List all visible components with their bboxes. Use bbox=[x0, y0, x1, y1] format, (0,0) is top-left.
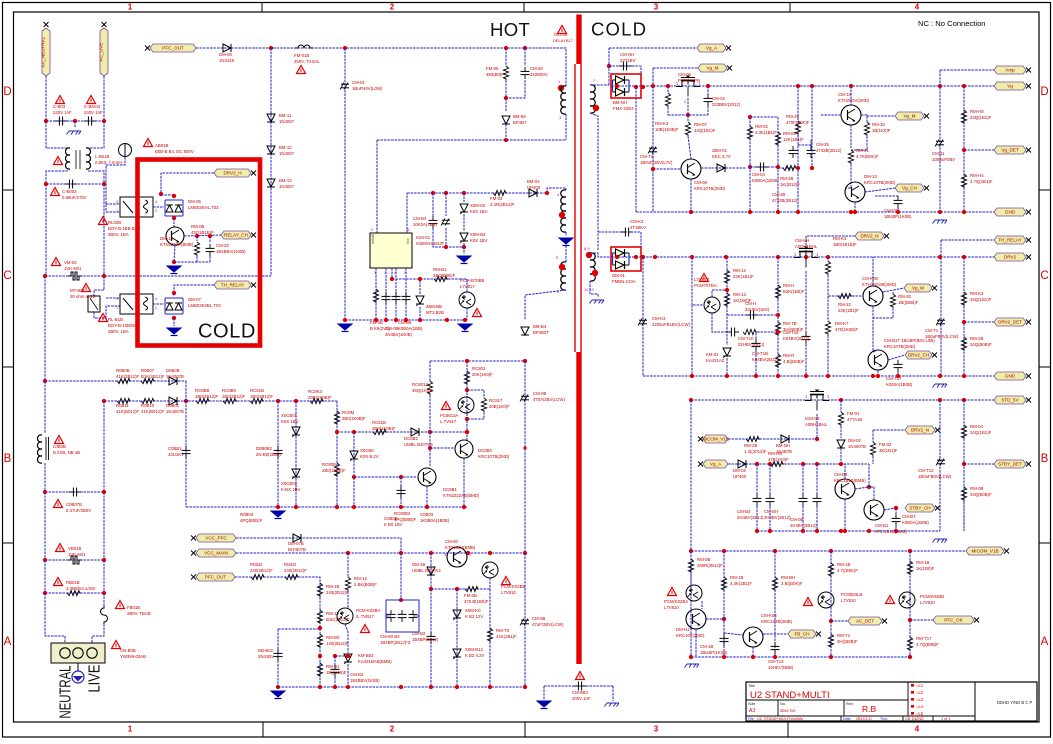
diode DM-02c UP400 bbox=[738, 460, 746, 468]
diode BM-50 BP4B7 bbox=[502, 116, 510, 124]
junction bbox=[896, 210, 900, 214]
svg-text:A0DH1BHL: A0DH1BHL bbox=[795, 244, 818, 249]
svg-text:CM-K3: CM-K3 bbox=[630, 219, 644, 224]
svg-text:RM-1B: RM-1B bbox=[916, 560, 930, 565]
wire bbox=[816, 506, 818, 531]
junction bbox=[634, 255, 638, 259]
wire x=457 zd chain bbox=[456, 589, 458, 687]
junction bbox=[725, 288, 729, 292]
svg-text:KTH2N0V(2MD): KTH2N0V(2MD) bbox=[838, 98, 870, 103]
junction bbox=[431, 191, 435, 195]
capacitor DB02 bbox=[274, 652, 283, 654]
wire bbox=[185, 381, 187, 401]
junction bbox=[43, 558, 47, 562]
junction bbox=[843, 529, 847, 533]
wire y=115 row bbox=[668, 114, 708, 116]
svg-text:L0B0B: L0B0B bbox=[53, 444, 66, 449]
chassis ground C bbox=[933, 384, 948, 388]
junction bbox=[488, 551, 492, 555]
wire x=727 chain bbox=[726, 257, 728, 345]
svg-text:B: B bbox=[1041, 453, 1049, 465]
wire bbox=[45, 593, 65, 643]
svg-text:Rev.: Rev. bbox=[846, 702, 854, 706]
svg-text:0.68uF/275V: 0.68uF/275V bbox=[62, 195, 87, 200]
wire cap CM-07 bbox=[875, 195, 898, 197]
svg-text:K0X 1BV: K0X 1BV bbox=[470, 209, 488, 214]
wire CM-01 branch bbox=[344, 48, 346, 320]
svg-text:RM-BH: RM-BH bbox=[781, 575, 795, 580]
svg-text:12K(1B1)F: 12K(1B1)F bbox=[783, 137, 804, 142]
wire C0B1 branch bbox=[185, 401, 187, 507]
svg-text:CM-11: CM-11 bbox=[932, 151, 945, 156]
capacitor CM-T12 bbox=[937, 459, 945, 461]
net flag RELAY_CH bbox=[221, 231, 251, 239]
resistor R0B0B bbox=[117, 378, 131, 383]
svg-text:X0CB01: X0CB01 bbox=[281, 413, 298, 418]
wire MICOM_V1B right bbox=[910, 550, 966, 552]
warning bbox=[442, 402, 451, 410]
svg-text:B 2XB, NB uB: B 2XB, NB uB bbox=[53, 450, 80, 455]
wire Vg_M flag C bbox=[883, 288, 904, 292]
wire bbox=[632, 66, 641, 74]
svg-text:1B4BBV(1K0B): 1B4BBV(1K0B) bbox=[350, 678, 380, 683]
warning bbox=[56, 96, 65, 104]
svg-text:23Q(1B1)F: 23Q(1B1)F bbox=[970, 115, 992, 120]
junction bbox=[768, 529, 772, 533]
warning bbox=[54, 157, 63, 165]
svg-text:DM-07: DM-07 bbox=[188, 297, 202, 302]
svg-text:RM-22: RM-22 bbox=[838, 302, 852, 307]
svg-text:RL02B: RL02B bbox=[108, 220, 121, 225]
wire x=490 res branch bbox=[489, 589, 491, 687]
junction bbox=[465, 417, 469, 421]
wire Vg_A row B bbox=[728, 463, 869, 465]
svg-text:RC81B: RC81B bbox=[250, 388, 264, 393]
junction bbox=[768, 462, 772, 466]
wire bbox=[692, 257, 704, 305]
wire bbox=[667, 107, 669, 115]
capacitor CM-80a bbox=[387, 613, 396, 615]
capacitor CM-T16 bbox=[802, 335, 811, 337]
wire bus y=531 bbox=[757, 530, 940, 532]
wire MICOM row bbox=[728, 438, 817, 440]
svg-text:43Q1B1B)F: 43Q1B1B)F bbox=[191, 230, 214, 235]
junction bbox=[962, 84, 966, 88]
svg-text:1B4BBV(1K0B): 1B4BBV(1K0B) bbox=[216, 249, 246, 254]
junction bbox=[428, 446, 432, 450]
svg-text:2H4BV(2B1J): 2H4BV(2B1J) bbox=[737, 515, 764, 520]
wire Vg_A top bbox=[609, 47, 697, 49]
IC ICM-01 ICB0NH1B4JF bbox=[370, 233, 412, 268]
svg-text:D: D bbox=[1040, 86, 1048, 98]
net flag PFC_OUT2 bbox=[196, 573, 235, 581]
wire bbox=[489, 578, 491, 589]
svg-text:390(B0)F: 390(B0)F bbox=[486, 72, 504, 77]
wire bbox=[872, 456, 874, 464]
junction bbox=[849, 210, 853, 214]
capacitor CM-11 bbox=[936, 140, 944, 142]
wire bbox=[802, 464, 804, 494]
net flag DRV2 bbox=[994, 253, 1026, 261]
svg-text:1 of 1: 1 of 1 bbox=[941, 717, 951, 721]
diode DM-1B UMBL.B40TK3 bbox=[427, 567, 435, 575]
wire bbox=[590, 84, 609, 86]
svg-text:RC817: RC817 bbox=[489, 398, 503, 403]
wire x=940 B bbox=[939, 400, 941, 531]
svg-text:DDHD Y/ND B C P: DDHD Y/ND B C P bbox=[997, 700, 1032, 705]
svg-text:KTN2222A(BMB): KTN2222A(BMB) bbox=[160, 242, 194, 247]
junction bbox=[615, 84, 619, 88]
wire bbox=[94, 306, 120, 318]
zener diode X0M-K0 K B2 12V bbox=[453, 610, 461, 618]
svg-text:0.47uF/2B0V: 0.47uF/2B0V bbox=[66, 508, 91, 513]
svg-text:Vg: Vg bbox=[1007, 84, 1013, 89]
svg-text:1B0(2B12)F: 1B0(2B12)F bbox=[250, 394, 274, 399]
warning bbox=[99, 314, 108, 322]
wire bbox=[525, 48, 566, 86]
warning bbox=[54, 500, 63, 508]
svg-text:BM-50: BM-50 bbox=[513, 114, 526, 119]
svg-text:L7V817: L7V817 bbox=[460, 284, 475, 289]
junction bbox=[43, 379, 47, 383]
svg-text:2T1BKV: 2T1BKV bbox=[630, 225, 646, 230]
wire bbox=[565, 232, 567, 236]
svg-text:CM-B4: CM-B4 bbox=[413, 216, 427, 221]
svg-text:CM-T13: CM-T13 bbox=[768, 659, 784, 664]
wire x=401 cap bank feed bbox=[400, 553, 402, 600]
svg-text:1N4007B: 1N4007B bbox=[166, 374, 184, 379]
junction bbox=[689, 210, 693, 214]
svg-text:FMX-22B3: FMX-22B3 bbox=[613, 106, 634, 111]
svg-text:34Q(1B1)F: 34Q(1B1)F bbox=[694, 128, 716, 133]
junction bbox=[849, 84, 853, 88]
junction bbox=[418, 277, 422, 281]
svg-text:470F(B0K)F: 470F(B0K)F bbox=[786, 120, 810, 125]
wire FM-01 DM-02 branch bbox=[840, 400, 842, 412]
warning bbox=[99, 217, 108, 225]
resistor RM-B1 bbox=[317, 663, 322, 677]
wire PFC_OUT rail bbox=[196, 47, 566, 49]
ground aux supply bbox=[457, 256, 471, 262]
junction bbox=[523, 446, 526, 449]
connector CN-B0B bbox=[51, 643, 105, 663]
thermistor MT-B01 bbox=[88, 296, 100, 312]
svg-text:DM-02: DM-02 bbox=[733, 468, 747, 473]
wire bbox=[103, 593, 105, 606]
junction bbox=[184, 399, 188, 403]
wire bbox=[463, 243, 465, 254]
svg-text:CM-1B: CM-1B bbox=[700, 644, 714, 649]
resistor RM-1B bbox=[317, 583, 322, 597]
svg-text:4PQ(B0B)F: 4PQ(B0B)F bbox=[394, 517, 417, 522]
svg-text:B2K(1B0)F: B2K(1B0)F bbox=[783, 289, 805, 294]
wire y=361 feed bbox=[430, 360, 525, 362]
svg-text:DB-B02: DB-B02 bbox=[258, 648, 274, 653]
wire bbox=[347, 553, 349, 577]
svg-text:=L4: =L4 bbox=[916, 704, 924, 709]
svg-text:BM-12: BM-12 bbox=[279, 145, 292, 150]
wire bbox=[707, 106, 709, 115]
svg-text:2: 2 bbox=[390, 725, 395, 734]
svg-text:240(2B12)F: 240(2B12)F bbox=[326, 590, 349, 595]
svg-text:2BQ(B0B)F: 2BQ(B0B)F bbox=[433, 273, 456, 278]
rectifier red box D bbox=[611, 74, 641, 98]
junction bbox=[318, 654, 322, 658]
wire x=354 branch bbox=[353, 432, 355, 507]
resistor FM-02 bbox=[870, 442, 875, 456]
junction bbox=[335, 430, 339, 434]
wire bbox=[873, 308, 893, 318]
wire bbox=[840, 426, 842, 438]
svg-text:200R(2B12)F: 200R(2B12)F bbox=[697, 563, 723, 568]
svg-text:C-BNH3: C-BNH3 bbox=[84, 104, 101, 109]
svg-text:PFC_OK: PFC_OK bbox=[944, 618, 963, 623]
wire x=337 chain bbox=[336, 401, 338, 507]
svg-text:10K0A(1BB): 10K0A(1BB) bbox=[413, 222, 437, 227]
title block bbox=[746, 682, 1037, 721]
junction bbox=[801, 462, 805, 466]
warning bbox=[54, 578, 63, 586]
wire bbox=[103, 276, 105, 290]
wire bbox=[184, 235, 221, 236]
svg-text:1N4007: 1N4007 bbox=[279, 151, 295, 156]
resistor RM-30 bbox=[864, 122, 869, 136]
svg-text:39Q(1K0)F: 39Q(1K0)F bbox=[412, 388, 434, 393]
svg-text:RM-K7: RM-K7 bbox=[835, 321, 849, 326]
wire bbox=[88, 121, 104, 148]
svg-text:CM-B4: CM-B4 bbox=[834, 472, 848, 477]
svg-text:RC8K3: RC8K3 bbox=[308, 389, 322, 394]
resistor RC8BB bbox=[196, 398, 210, 403]
capacitor bank CM-80-B2 bbox=[386, 600, 419, 632]
wire bbox=[347, 664, 349, 687]
warning bbox=[82, 284, 91, 292]
svg-text:2N-B0(2B0J): 2N-B0(2B0J) bbox=[256, 452, 281, 457]
diode D0B0B 1N4007 bbox=[169, 377, 177, 385]
svg-text:KTD1624(BMB): KTD1624(BMB) bbox=[445, 545, 476, 550]
wire AC_DET flag bbox=[831, 620, 848, 622]
wire bbox=[173, 318, 175, 326]
svg-text:DM-1B: DM-1B bbox=[412, 562, 426, 567]
wire bbox=[695, 629, 697, 657]
svg-text:K0X 1BV: K0X 1BV bbox=[281, 419, 299, 424]
warning bbox=[668, 588, 677, 596]
svg-text:1BUBP(1K0B): 1BUBP(1K0B) bbox=[884, 214, 912, 219]
wire cap CM-B branch bbox=[335, 655, 348, 657]
junction bbox=[722, 549, 726, 553]
junction bbox=[722, 617, 726, 621]
svg-text:140(2B12)F: 140(2B12)F bbox=[326, 641, 349, 646]
junction bbox=[429, 551, 433, 555]
svg-text:ICB0NH1B4JF: ICB0NH1B4JF bbox=[416, 241, 445, 246]
wire y=589 row bbox=[431, 588, 490, 590]
svg-text:CM-B1: CM-B1 bbox=[875, 523, 889, 528]
wire bbox=[897, 372, 899, 376]
junction bbox=[43, 591, 47, 595]
svg-text:KRC10TB(2MB): KRC10TB(2MB) bbox=[761, 619, 793, 624]
wire bbox=[103, 184, 105, 276]
wire x=778 divider bbox=[777, 117, 779, 212]
svg-text:RM-0B: RM-0B bbox=[191, 224, 205, 229]
svg-text:RM-H0: RM-H0 bbox=[970, 109, 984, 114]
svg-text:1B0(2B12)F: 1B0(2B12)F bbox=[195, 394, 219, 399]
capacitor CM-K3 bbox=[624, 228, 626, 237]
svg-text:2B0V, 1BA: 2B0V, 1BA bbox=[108, 232, 129, 237]
net flag Vg bbox=[994, 82, 1026, 90]
resistor RM-21 bbox=[848, 150, 853, 164]
junction bbox=[607, 64, 611, 68]
opto-coupler PCM-B70BB LTV817 bbox=[459, 292, 475, 308]
junction bbox=[938, 255, 942, 259]
svg-text:BM-NH: BM-NH bbox=[613, 100, 627, 105]
svg-text:RM-H4: RM-H4 bbox=[970, 173, 984, 178]
svg-text:2.BK(B0B)F: 2.BK(B0B)F bbox=[354, 582, 377, 587]
jumper AB01B bbox=[119, 144, 132, 157]
wire bbox=[691, 305, 693, 376]
svg-text:1B0uFB0V(LCW): 1B0uFB0V(LCW) bbox=[918, 474, 952, 479]
svg-text:POPF11PN: POPF11PN bbox=[678, 78, 700, 83]
svg-text:CM-B3: CM-B3 bbox=[350, 672, 364, 677]
svg-text:/L.TVB17: /L.TVB17 bbox=[356, 614, 375, 619]
zone tick marks bbox=[261, 3, 263, 13]
svg-text:CM-05: CM-05 bbox=[678, 72, 692, 77]
resistor RM-05 bbox=[775, 132, 780, 146]
svg-text:1: 1 bbox=[128, 725, 133, 734]
svg-text:xbxx rxx: xbxx rxx bbox=[780, 708, 796, 713]
net flag Amp bbox=[994, 66, 1026, 74]
svg-text:Amp: Amp bbox=[1005, 68, 1015, 73]
svg-text:1B((B0B)F: 1B((B0B)F bbox=[898, 300, 919, 305]
capacitor CM-B4 bbox=[429, 219, 438, 221]
svg-text:RC80B2: RC80B2 bbox=[394, 511, 411, 516]
svg-text:PCM/K02BB: PCM/K02BB bbox=[920, 594, 944, 599]
net flag MICOM_V1B right bbox=[966, 547, 1004, 555]
wire Vg_M top bbox=[653, 67, 698, 69]
resistor RB1B bbox=[251, 574, 265, 579]
capacitor CM-B9 bbox=[392, 295, 401, 297]
wire y=117 link bbox=[750, 116, 778, 118]
junction bbox=[399, 685, 403, 689]
svg-text:47TA1B: 47TA1B bbox=[847, 417, 862, 422]
wire bbox=[429, 361, 431, 381]
fuse FM-01 bbox=[295, 45, 313, 48]
svg-text:RC8M: RC8M bbox=[342, 410, 355, 415]
transistor CM-K08 KTH2N0VB bbox=[863, 286, 883, 306]
diode DM-02 1N4007B bbox=[837, 440, 845, 448]
svg-text:R0B03: R0B03 bbox=[240, 512, 254, 517]
wire bbox=[429, 395, 431, 432]
wire main Vg bus y=86 bbox=[611, 85, 994, 87]
zener diode X0CB01 K0X 1BV bbox=[292, 427, 300, 435]
svg-text:11,13: 11,13 bbox=[584, 287, 594, 292]
junction bbox=[962, 255, 966, 259]
junction bbox=[815, 437, 819, 441]
junction bbox=[867, 485, 871, 489]
svg-text:RM1B: RM1B bbox=[250, 562, 262, 567]
junction bbox=[908, 549, 912, 553]
wire bbox=[347, 591, 349, 608]
svg-text:STD_5V: STD_5V bbox=[1001, 398, 1019, 403]
svg-text:1K((B12)F: 1K((B12)F bbox=[780, 182, 800, 187]
svg-text:PCM/K02BA: PCM/K02BA bbox=[664, 599, 688, 604]
svg-text:RM-0B: RM-0B bbox=[970, 486, 984, 491]
wire gnd bus y=687 bbox=[278, 686, 525, 688]
svg-text:C0B03: C0B03 bbox=[420, 512, 434, 517]
junction bbox=[102, 119, 106, 123]
wire cap row 2 bbox=[46, 183, 104, 185]
svg-text:UP400: UP400 bbox=[733, 474, 747, 479]
dual diode BM-NH FMX-22B3 bbox=[613, 79, 616, 81]
svg-text:Title: Title bbox=[748, 684, 755, 688]
svg-text:RM-12: RM-12 bbox=[733, 268, 747, 273]
wire bbox=[103, 401, 105, 492]
resistor RM-H bbox=[775, 285, 780, 299]
wire bbox=[769, 506, 771, 531]
svg-text:PCM-K02BA: PCM-K02BA bbox=[356, 608, 380, 613]
svg-text:YW396-03AB: YW396-03AB bbox=[120, 654, 146, 659]
svg-text:200V 1nF: 200V 1nF bbox=[572, 696, 591, 701]
revision bullet list bbox=[911, 684, 914, 687]
junction bbox=[102, 558, 106, 562]
wire BM-4 aux feed bbox=[524, 361, 526, 554]
svg-text:RB01B: RB01B bbox=[66, 580, 80, 585]
capacitor C0BB1 bbox=[182, 449, 191, 451]
svg-text:DM-05: DM-05 bbox=[188, 199, 202, 204]
net flag Vg_A bbox=[697, 44, 726, 52]
wire bbox=[827, 275, 829, 321]
svg-text:AB01B: AB01B bbox=[155, 143, 169, 148]
net flag DRV2_H bbox=[214, 169, 251, 177]
wire base rail bbox=[653, 168, 681, 170]
svg-text:1B4BP(B012): 1B4BP(B012) bbox=[412, 637, 439, 642]
junction bbox=[810, 84, 814, 88]
warning bbox=[558, 26, 567, 34]
svg-text:L7V810: L7V810 bbox=[920, 600, 935, 605]
svg-text:CM-K3: CM-K3 bbox=[652, 316, 666, 321]
junction bbox=[374, 318, 378, 322]
svg-text:CB 1N2ND: CB 1N2ND bbox=[905, 717, 924, 721]
svg-text:47B(1K0)F: 47B(1K0)F bbox=[768, 457, 789, 462]
junction bbox=[853, 210, 857, 214]
junction bbox=[908, 655, 912, 659]
svg-text:4: 4 bbox=[915, 3, 920, 12]
wire CM-K3 cap top bbox=[598, 231, 627, 233]
resistor RM-BH bbox=[772, 577, 777, 591]
wire bbox=[46, 121, 68, 148]
wire bbox=[467, 412, 484, 419]
svg-text:Date: Date bbox=[843, 717, 851, 721]
svg-text:VB01B: VB01B bbox=[68, 546, 82, 551]
warning bbox=[87, 96, 96, 104]
resistor FM-06 bbox=[503, 66, 508, 80]
svg-text:D0B0B: D0B0B bbox=[166, 368, 180, 373]
wire DRV2 bus y=257 bbox=[611, 256, 994, 258]
wire bbox=[44, 560, 46, 593]
junction bbox=[871, 374, 875, 378]
svg-text:FM-02: FM-02 bbox=[879, 442, 892, 447]
wire bbox=[802, 506, 804, 531]
svg-text:RM-R: RM-R bbox=[783, 353, 794, 358]
svg-text:CM-50: CM-50 bbox=[530, 66, 544, 71]
wire snubber return y=140 bbox=[377, 139, 566, 141]
svg-text:DRV2: DRV2 bbox=[1004, 255, 1017, 260]
wire bbox=[506, 80, 525, 98]
wire bbox=[505, 98, 507, 112]
net flag DRV2_N bbox=[855, 232, 884, 240]
svg-text:CM-02: CM-02 bbox=[712, 96, 726, 101]
capacitor CM-50 bbox=[521, 70, 530, 72]
svg-text:K040A(1B0B): K040A(1B0B) bbox=[886, 382, 913, 387]
